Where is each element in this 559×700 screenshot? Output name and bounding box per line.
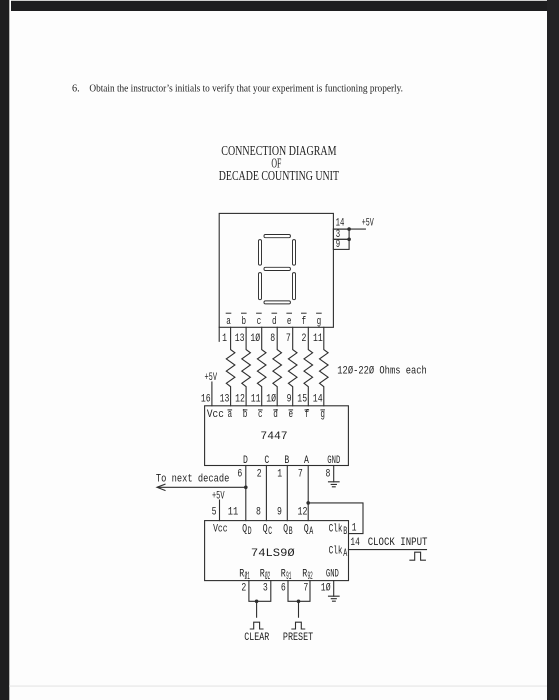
junction dot D-wire / next-decade	[244, 486, 248, 490]
svg-text:2: 2	[257, 468, 262, 480]
7447 input b overbar	[243, 409, 248, 411]
svg-text:11: 11	[228, 506, 239, 518]
svg-text:A: A	[304, 455, 309, 467]
wire+resistor R7 (segment g, pin 11 to 7447 pin 14)	[319, 327, 328, 406]
svg-text:12Ø-22Ø Ohms each: 12Ø-22Ø Ohms each	[337, 365, 427, 377]
svg-text:To next decade: To next decade	[156, 473, 230, 485]
overbar letter e	[287, 312, 292, 314]
svg-text:PRESET: PRESET	[283, 632, 313, 644]
svg-text:d: d	[273, 409, 278, 421]
svg-text:11: 11	[313, 333, 323, 345]
svg-text:e: e	[287, 316, 292, 328]
wire to next decade (arrow)	[158, 486, 246, 488]
scan border top bar	[11, 1, 548, 11]
7447 input f overbar	[305, 409, 310, 411]
wire+resistor R3 (segment c, pin 10 to 7447 pin 11)	[257, 327, 266, 406]
svg-text:5: 5	[212, 506, 217, 518]
wire+resistor R6 (segment f, pin 2 to 7447 pin 15)	[304, 327, 313, 406]
wire CLEAR stub	[256, 601, 258, 617]
svg-text:1: 1	[352, 522, 357, 534]
svg-text:GND: GND	[327, 455, 340, 467]
wire ClkA pin 14 clock input	[349, 549, 427, 551]
overbar letter b	[242, 312, 247, 314]
svg-text:14: 14	[350, 537, 360, 549]
IC U2 74LS90 body	[205, 521, 349, 581]
display segment e (bottom-left)	[259, 273, 262, 300]
scan border left bar	[0, 0, 9, 700]
PRESET pulse symbol	[292, 622, 305, 629]
svg-text:1Ø: 1Ø	[266, 393, 276, 405]
svg-text:Q: Q	[263, 523, 268, 535]
svg-text:d: d	[272, 316, 277, 328]
svg-text:A: A	[309, 526, 313, 538]
svg-text:+5V: +5V	[205, 372, 218, 384]
svg-text:6: 6	[281, 583, 286, 595]
svg-text:9: 9	[287, 393, 292, 405]
7447 input a overbar	[228, 409, 233, 411]
svg-text:f: f	[302, 316, 307, 328]
wire+resistor R2 (segment b, pin 13 to 7447 pin 12)	[242, 327, 251, 406]
wire +5V to 74LS90 pin 5	[219, 500, 221, 521]
svg-text:CLOCK INPUT: CLOCK INPUT	[368, 537, 428, 549]
display segment b (top-right)	[293, 240, 296, 266]
svg-text:Ø1: Ø1	[245, 571, 250, 583]
svg-text:c: c	[258, 409, 263, 421]
clock input pulse symbol	[410, 552, 425, 560]
overbar letter g	[317, 312, 322, 314]
wire 7447 C pin2 to 74LS90 QC pin8	[265, 466, 267, 521]
svg-text:8: 8	[256, 506, 261, 518]
overbar letter f	[302, 312, 307, 314]
svg-text:13: 13	[220, 393, 230, 405]
svg-text:Clk: Clk	[329, 523, 343, 535]
svg-text:A: A	[343, 548, 347, 560]
display pin 3 box	[333, 229, 349, 239]
ground symbol at 74LS90 pin 10	[329, 596, 340, 601]
svg-text:14: 14	[313, 393, 323, 405]
IC U1 7447 body	[205, 406, 349, 466]
wire +5V to 7447 pin 16	[211, 382, 213, 406]
svg-text:b: b	[243, 409, 248, 421]
wire+resistor R4 (segment d, pin 8 to 7447 pin 10)	[273, 327, 282, 406]
svg-text:7447: 7447	[260, 431, 287, 443]
svg-text:a: a	[228, 409, 233, 421]
svg-text:92: 92	[308, 571, 313, 583]
svg-text:1Ø: 1Ø	[250, 333, 260, 345]
wire 74LS90 GND pin10	[333, 581, 335, 597]
svg-text:1Ø: 1Ø	[321, 583, 331, 595]
svg-text:C: C	[268, 526, 272, 538]
scan artifact faint line	[9, 685, 547, 687]
display pin 14 wire to +5V	[333, 228, 365, 230]
svg-text:f: f	[305, 409, 310, 421]
svg-text:a: a	[226, 316, 231, 328]
scan border right bar	[547, 0, 559, 700]
svg-text:B: B	[289, 526, 293, 538]
overbar letter a	[226, 312, 231, 314]
display segment g (middle)	[264, 267, 290, 270]
svg-text:D: D	[243, 455, 248, 467]
svg-text:3: 3	[263, 583, 268, 595]
junction dot pin3/pin9	[347, 238, 351, 242]
svg-text:e: e	[289, 409, 294, 421]
wire R01 pin2 / R02 pin3 loop (CLEAR)	[249, 581, 271, 602]
svg-text:B: B	[343, 526, 347, 538]
junction dot CLEAR	[255, 600, 259, 604]
svg-text:+5V: +5V	[362, 218, 374, 230]
display segment a (top)	[264, 235, 290, 238]
overbar letter c	[257, 312, 262, 314]
wire+resistor R5 (segment e, pin 7 to 7447 pin 9)	[288, 327, 297, 406]
7447 input c overbar	[258, 409, 263, 411]
svg-text:2: 2	[302, 333, 307, 345]
wire PRESET stub	[298, 601, 300, 617]
wire QA branch to ClkB pin 1	[308, 503, 363, 534]
junction dot QA / ClkB branch	[306, 501, 310, 505]
display pin 9 box	[333, 239, 349, 249]
wire R91 pin6 / R92 pin7 loop (PRESET)	[288, 581, 310, 602]
svg-text:13: 13	[235, 333, 245, 345]
7447 input g overbar	[320, 409, 325, 411]
svg-text:15: 15	[297, 393, 307, 405]
svg-text:1: 1	[277, 468, 282, 480]
svg-text:Clk: Clk	[329, 546, 343, 558]
7-segment display U3 body	[219, 213, 333, 327]
svg-text:2: 2	[241, 583, 246, 595]
wire+resistor R1 (segment a, pin 1 to 7447 pin 13)	[226, 327, 235, 406]
ground symbol at 7447 pin 8	[329, 482, 340, 487]
wire 7447 A pin7 to 74LS90 QA pin12	[307, 466, 309, 521]
svg-text:12: 12	[235, 393, 245, 405]
wire 7447 GND pin8	[333, 466, 335, 482]
svg-text:7: 7	[303, 583, 308, 595]
CLEAR pulse symbol	[250, 622, 263, 629]
svg-text:9: 9	[336, 239, 340, 251]
7447 input e overbar	[289, 409, 294, 411]
svg-text:8: 8	[326, 468, 331, 480]
svg-text:B: B	[284, 455, 289, 467]
svg-text:DECADE COUNTING UNIT: DECADE COUNTING UNIT	[219, 168, 339, 183]
svg-text:11: 11	[251, 393, 261, 405]
svg-text:c: c	[257, 316, 262, 328]
svg-text:9: 9	[277, 506, 282, 518]
arrowhead to next decade	[157, 484, 165, 490]
display segment f (top-left)	[259, 240, 262, 266]
svg-text:Vcc: Vcc	[207, 409, 224, 421]
svg-text:8: 8	[270, 333, 275, 345]
svg-text:C: C	[264, 455, 269, 467]
svg-text:91: 91	[286, 571, 291, 583]
svg-text:7: 7	[286, 333, 291, 345]
svg-text:Q: Q	[304, 523, 309, 535]
svg-text:GND: GND	[326, 568, 339, 580]
svg-text:6.: 6.	[72, 83, 80, 94]
display segment d (bottom)	[264, 301, 290, 304]
svg-text:74LS9Ø: 74LS9Ø	[251, 548, 295, 560]
svg-text:Obtain the instructor’s initia: Obtain the instructor’s initials to veri…	[89, 83, 403, 94]
svg-text:7: 7	[298, 468, 303, 480]
wire 7447 B pin1 to 74LS90 QB pin9	[286, 466, 288, 521]
svg-text:12: 12	[298, 506, 308, 518]
svg-text:g: g	[317, 316, 322, 328]
svg-text:Vcc: Vcc	[213, 523, 228, 535]
svg-text:16: 16	[201, 393, 211, 405]
svg-text:CLEAR: CLEAR	[244, 632, 269, 644]
junction dot pin14/pin3	[347, 227, 351, 231]
svg-text:+5V: +5V	[212, 491, 225, 503]
svg-text:D: D	[248, 526, 252, 538]
7447 input d overbar	[273, 409, 278, 411]
display pin-row left divider	[218, 327, 220, 341]
svg-text:14: 14	[336, 218, 345, 230]
junction dot PRESET	[297, 600, 301, 604]
svg-text:Ø2: Ø2	[265, 571, 270, 583]
overbar letter d	[272, 312, 277, 314]
svg-text:Q: Q	[242, 523, 247, 535]
wire 7447 D pin6 to 74LS90 QD pin11	[245, 466, 247, 521]
display segment c (bottom-right)	[293, 273, 296, 300]
svg-text:1: 1	[222, 333, 227, 345]
svg-text:6: 6	[237, 468, 242, 480]
svg-text:b: b	[242, 316, 247, 328]
svg-text:g: g	[320, 409, 325, 421]
svg-text:Q: Q	[283, 523, 288, 535]
